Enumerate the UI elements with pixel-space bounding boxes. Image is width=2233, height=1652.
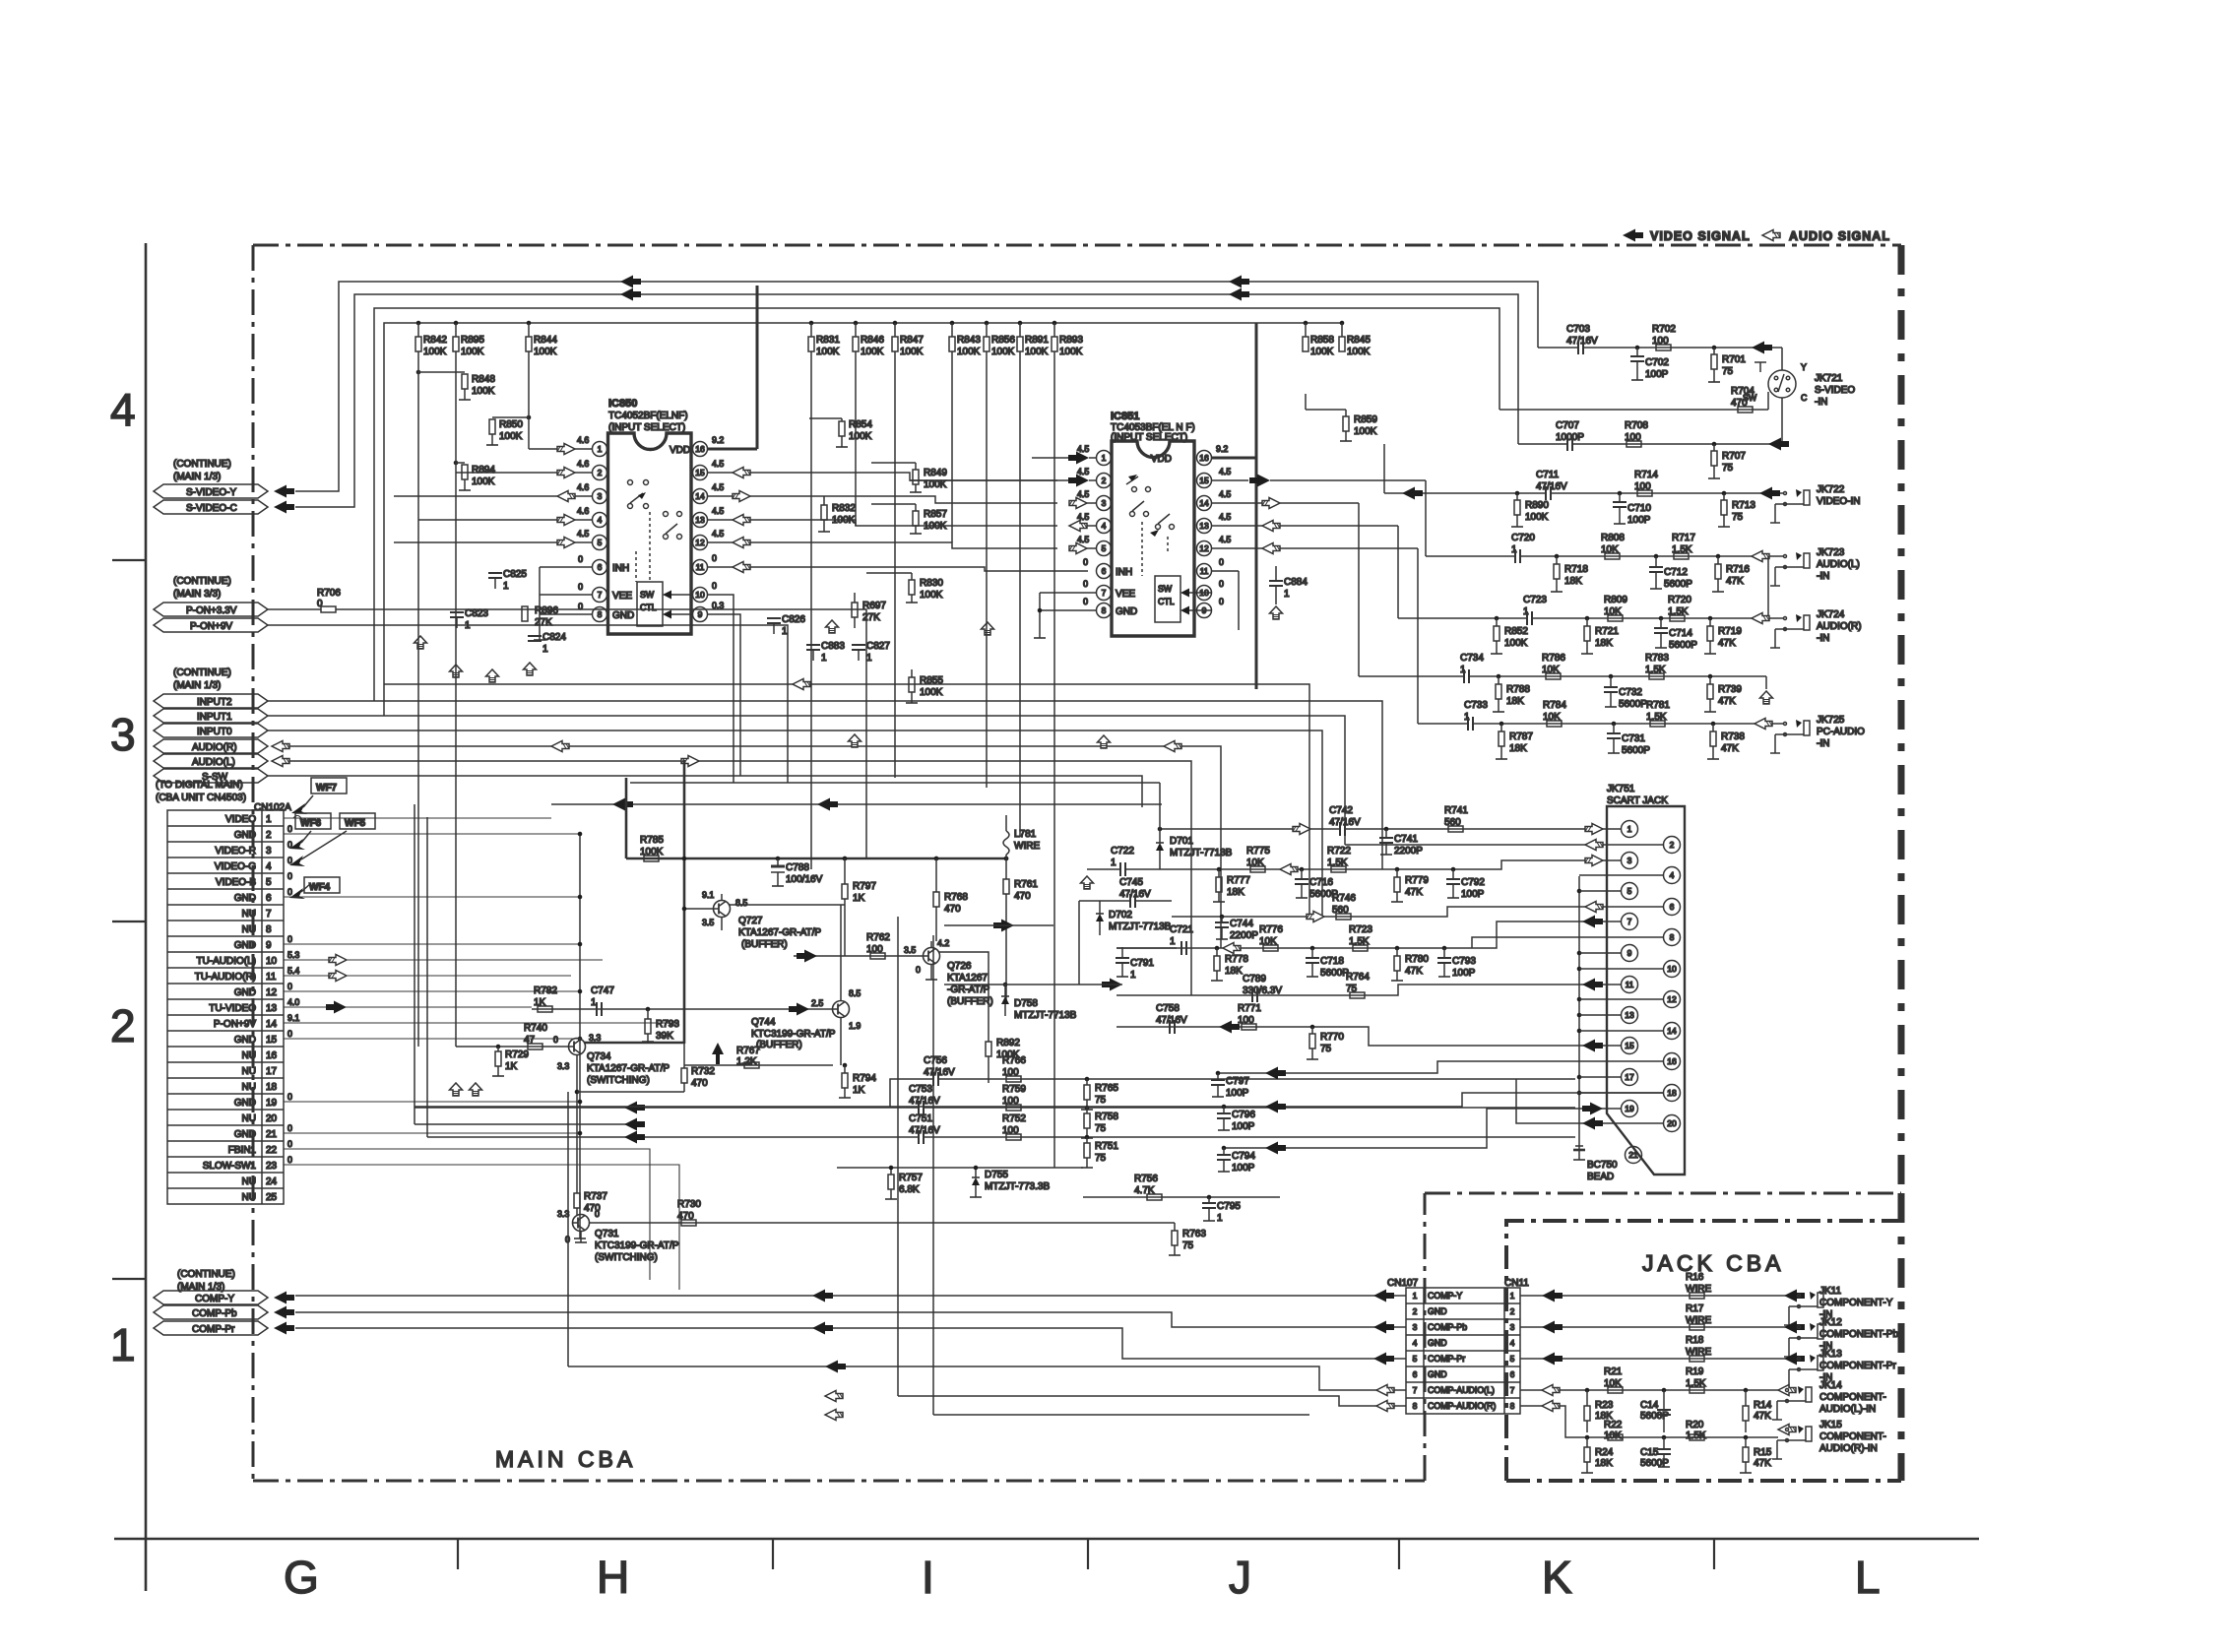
arrow JK12 — [1542, 1321, 1563, 1334]
IC851 pin 8 — [1097, 604, 1112, 618]
svg-text:CTL: CTL — [1158, 597, 1175, 606]
svg-text:COMPONENT-: COMPONENT- — [1819, 1392, 1886, 1403]
wire gnd bus to pin 13 — [1577, 1013, 1621, 1018]
svg-text:100/16V: 100/16V — [786, 874, 823, 885]
resistor R767 — [736, 1046, 760, 1068]
svg-text:560: 560 — [1444, 817, 1461, 828]
svg-text:47K: 47K — [1405, 887, 1423, 898]
capacitor C14 — [1640, 1388, 1671, 1432]
svg-text:7: 7 — [598, 590, 603, 600]
svg-text:47K: 47K — [1405, 966, 1423, 977]
svg-text:0: 0 — [578, 602, 583, 611]
svg-text:R759: R759 — [1002, 1084, 1026, 1095]
resistor R738 — [1707, 722, 1745, 759]
svg-text:5.4: 5.4 — [287, 966, 299, 976]
svg-text:13: 13 — [1199, 521, 1209, 531]
resistor R765 — [1081, 1077, 1118, 1110]
connector CN107/CN11 table — [1406, 1288, 1520, 1414]
svg-text:4.5: 4.5 — [1077, 467, 1089, 477]
resistor R14 — [1743, 1388, 1772, 1432]
svg-text:1.5K: 1.5K — [1686, 1378, 1706, 1389]
capacitor C797 — [1211, 1071, 1249, 1099]
svg-text:0: 0 — [578, 582, 583, 592]
gnd hatch near C883 — [826, 620, 839, 633]
main cba dash-dot top — [253, 244, 1901, 247]
IC851 pin 4 — [1097, 519, 1112, 534]
resistor R794 — [839, 1063, 876, 1098]
svg-text:2: 2 — [1413, 1306, 1418, 1316]
svg-text:MAIN CBA: MAIN CBA — [495, 1446, 636, 1472]
svg-text:7: 7 — [1627, 917, 1632, 926]
capacitor C884 — [1269, 566, 1308, 619]
resistor R775 — [1246, 846, 1270, 872]
svg-text:KTA1267-GR-AT/P: KTA1267-GR-AT/P — [587, 1063, 670, 1074]
capacitor C732 — [1604, 674, 1647, 710]
wire C745 riser — [1078, 901, 1080, 985]
resistor R716 — [1712, 554, 1750, 592]
IC851 gnd stub — [1034, 593, 1046, 638]
CN102A gnd bus — [579, 834, 581, 1239]
svg-text:9.1: 9.1 — [287, 1013, 299, 1023]
svg-text:Q726: Q726 — [947, 961, 972, 972]
svg-text:C794: C794 — [1232, 1151, 1255, 1162]
col tick J/K — [1398, 1539, 1400, 1569]
svg-text:16: 16 — [1667, 1056, 1677, 1066]
svg-text:2: 2 — [1102, 476, 1107, 485]
svg-text:0: 0 — [553, 1035, 558, 1045]
svg-text:21: 21 — [1628, 1150, 1638, 1160]
resistor R809 — [1604, 595, 1627, 621]
svg-text:R707: R707 — [1722, 451, 1746, 462]
svg-text:5: 5 — [598, 538, 603, 547]
flag COMP-Y — [154, 1291, 268, 1304]
svg-text:5: 5 — [266, 877, 272, 888]
svg-text:R845: R845 — [1347, 335, 1371, 346]
gnd hatch pc branch — [1760, 691, 1773, 704]
IC851 pin15 wire 4.5 — [1212, 467, 1426, 487]
resistor R776 — [1259, 924, 1283, 951]
svg-text:COMP-Y: COMP-Y — [195, 1294, 234, 1304]
svg-text:100K: 100K — [957, 347, 981, 357]
svg-text:27K: 27K — [862, 612, 880, 623]
wire C796 row — [415, 1106, 1224, 1108]
svg-text:WIRE: WIRE — [1014, 841, 1040, 852]
resistor R720 — [1668, 595, 1691, 621]
main cba dash-dot left — [252, 245, 255, 1481]
row tick 4/3 — [112, 559, 146, 561]
arrow row 695 — [793, 679, 810, 690]
svg-text:INH: INH — [1116, 567, 1132, 578]
IC851 pin16 wire 9.2 — [1212, 323, 1256, 689]
svg-text:15: 15 — [266, 1035, 278, 1046]
resistor R777 — [1213, 867, 1250, 902]
svg-text:R771: R771 — [1238, 1003, 1261, 1014]
capacitor C827 — [852, 641, 890, 664]
arrow JK13 — [1542, 1353, 1563, 1366]
IC851 pin 3 — [1097, 496, 1112, 511]
wire s-video-y row — [1538, 347, 1578, 349]
resistor R757 — [885, 1168, 923, 1199]
svg-text:H: H — [597, 1552, 629, 1603]
resistor R702 — [1652, 324, 1676, 350]
svg-text:560: 560 — [1332, 905, 1349, 916]
svg-text:NU: NU — [242, 924, 256, 935]
IC851 pin8 wire 0 — [1040, 597, 1096, 610]
svg-text:75: 75 — [1320, 1044, 1332, 1054]
svg-text:R702: R702 — [1652, 324, 1676, 335]
resistor R704 — [1499, 386, 1768, 413]
svg-text:13: 13 — [695, 515, 705, 525]
legend video arrow — [1623, 229, 1643, 242]
wire vertical x967 — [951, 351, 953, 542]
svg-text:GND: GND — [234, 940, 256, 951]
IC850 pin 7 — [593, 588, 607, 603]
svg-text:100K: 100K — [1504, 638, 1528, 649]
resistor R831 — [808, 321, 840, 357]
jack cba dash-dot box — [1506, 1221, 1898, 1481]
svg-text:1: 1 — [1111, 858, 1116, 868]
svg-text:9: 9 — [266, 940, 272, 951]
svg-text:100K: 100K — [472, 386, 495, 397]
IC851 SW CTL box — [1155, 576, 1180, 622]
svg-text:100: 100 — [1634, 481, 1651, 492]
capacitor C710 — [1613, 491, 1651, 526]
svg-text:17: 17 — [1625, 1072, 1634, 1082]
capacitor C826 — [767, 614, 805, 637]
arrow row C751 — [624, 1131, 645, 1144]
wire Q727 collector — [730, 904, 845, 906]
svg-text:0: 0 — [1083, 579, 1088, 589]
svg-text:(CONTINUE): (CONTINUE) — [177, 1269, 235, 1280]
capacitor C747 — [591, 985, 614, 1016]
svg-text:(CONTINUE): (CONTINUE) — [173, 667, 231, 678]
svg-text:5.3: 5.3 — [287, 950, 299, 960]
connector JK11 — [1784, 1286, 1893, 1325]
svg-text:R850: R850 — [499, 419, 523, 430]
svg-text:R714: R714 — [1634, 470, 1658, 480]
arrow pin7 — [1582, 916, 1603, 928]
IC851 pin 6 — [1097, 564, 1112, 579]
svg-text:1.2K: 1.2K — [736, 1056, 757, 1067]
capacitor C703 — [1566, 324, 1598, 354]
svg-text:7: 7 — [1102, 588, 1107, 598]
arrow C794 row — [1265, 1142, 1286, 1155]
svg-text:0.3: 0.3 — [712, 601, 724, 610]
JK751 pin 19 — [1622, 1101, 1638, 1117]
svg-text:18K: 18K — [1225, 966, 1243, 977]
svg-text:47K: 47K — [1754, 1411, 1771, 1422]
svg-text:R785: R785 — [640, 835, 664, 846]
svg-text:C884: C884 — [1284, 577, 1308, 588]
arrow pin15 — [1582, 1040, 1603, 1052]
capacitor C792 — [1446, 867, 1485, 900]
gnd hatch c — [486, 669, 499, 682]
svg-text:1: 1 — [503, 581, 509, 592]
row tick 2/1 — [112, 1278, 146, 1280]
wire vertical x869 — [855, 351, 857, 526]
svg-text:INPUT0: INPUT0 — [197, 727, 232, 737]
svg-text:WF7: WF7 — [316, 783, 338, 794]
svg-text:R708: R708 — [1625, 420, 1648, 431]
svg-text:100: 100 — [866, 944, 883, 955]
resistor R893 — [1052, 321, 1083, 357]
IC851 pin1 wire 4.5 — [1032, 444, 1096, 465]
svg-text:I: I — [922, 1552, 934, 1603]
svg-text:R776: R776 — [1259, 924, 1283, 935]
svg-text:8.5: 8.5 — [849, 988, 861, 998]
IC850 pin 11 — [693, 560, 708, 575]
capacitor C756 — [924, 1055, 955, 1086]
svg-text:0: 0 — [287, 824, 292, 834]
svg-text:R794: R794 — [853, 1073, 876, 1084]
svg-text:0: 0 — [287, 982, 292, 991]
wire s-video-c row — [1518, 443, 1567, 445]
svg-text:C742: C742 — [1329, 805, 1353, 816]
svg-text:-IN: -IN — [1817, 633, 1829, 644]
svg-text:WF4: WF4 — [309, 882, 331, 893]
resistor R762 — [866, 932, 890, 959]
col tick K/L — [1713, 1539, 1715, 1569]
flag INPUT2 — [154, 694, 268, 708]
svg-text:0: 0 — [1219, 557, 1224, 567]
col tick I/J — [1087, 1539, 1089, 1569]
svg-text:10: 10 — [266, 956, 278, 967]
svg-text:47/16V: 47/16V — [1536, 481, 1567, 492]
arrow COMP-Pr mid — [812, 1322, 833, 1335]
wire P-ON+9V — [268, 625, 788, 783]
svg-text:R858: R858 — [1310, 335, 1334, 346]
svg-text:C718: C718 — [1320, 956, 1344, 967]
IC850 pin 13 — [693, 513, 708, 528]
svg-text:C758: C758 — [1156, 1003, 1180, 1014]
resistor R847 — [892, 321, 924, 357]
svg-text:1: 1 — [782, 626, 788, 637]
svg-text:3: 3 — [1413, 1322, 1418, 1332]
svg-text:R716: R716 — [1726, 564, 1750, 575]
svg-text:C733: C733 — [1464, 700, 1488, 711]
IC850 pin 5 — [593, 536, 607, 550]
wire P-ON+3.3V — [268, 608, 321, 610]
svg-text:R797: R797 — [853, 881, 876, 892]
svg-text:12: 12 — [266, 987, 278, 998]
svg-text:3: 3 — [110, 709, 136, 760]
svg-text:10K: 10K — [1604, 1378, 1622, 1389]
wire AUDIO(R) — [289, 746, 1221, 948]
svg-text:16: 16 — [1199, 453, 1209, 463]
svg-text:4.5: 4.5 — [1077, 444, 1089, 454]
svg-text:INPUT2: INPUT2 — [197, 697, 232, 708]
svg-text:JK725: JK725 — [1817, 715, 1845, 726]
arrow W2 b — [1229, 288, 1249, 301]
svg-text:1: 1 — [1217, 1213, 1223, 1224]
wire scart pin15 row — [1116, 1027, 1621, 1046]
WF6 boxed label — [295, 813, 331, 829]
svg-text:-IN: -IN — [1815, 397, 1827, 408]
svg-text:2: 2 — [1510, 1306, 1515, 1316]
svg-text:C744: C744 — [1230, 919, 1253, 929]
svg-text:47K: 47K — [1718, 696, 1736, 707]
svg-text:R787: R787 — [1509, 731, 1533, 742]
svg-text:5: 5 — [1510, 1354, 1515, 1364]
svg-text:5600P: 5600P — [1619, 699, 1647, 710]
IC851 pin 7 — [1097, 586, 1112, 601]
svg-text:8: 8 — [266, 924, 272, 935]
svg-text:2: 2 — [110, 1000, 136, 1051]
arrow Q744 base — [789, 1003, 809, 1016]
arrow JK12 in — [1784, 1321, 1805, 1334]
capacitor C823 — [450, 608, 488, 631]
arrow pin3 — [1585, 856, 1603, 866]
svg-text:R17: R17 — [1686, 1303, 1704, 1314]
op-amp IC851 body — [1112, 441, 1194, 636]
arrow COMP-Y — [274, 1292, 294, 1304]
CN102A pin11 wire — [284, 975, 571, 977]
svg-text:R766: R766 — [1002, 1055, 1026, 1066]
wire scart pin1 row — [1162, 828, 1340, 830]
svg-text:100P: 100P — [1645, 369, 1669, 380]
JK751 pin 20 — [1664, 1115, 1681, 1132]
svg-text:4.5: 4.5 — [1219, 535, 1231, 544]
svg-text:R894: R894 — [472, 465, 495, 476]
wire scart pin2 — [1345, 844, 1663, 846]
resistor R891 — [1017, 321, 1049, 357]
arrow D758 row — [1102, 979, 1122, 991]
svg-text:2.5: 2.5 — [811, 998, 823, 1008]
IC851 pin4 wire 4.5 — [1069, 512, 1096, 532]
svg-text:1K: 1K — [534, 997, 546, 1008]
border left vertical — [145, 243, 148, 1591]
arrow audio-l table — [1376, 1385, 1394, 1396]
svg-text:16: 16 — [266, 1050, 278, 1061]
svg-text:MTZJT-7713B: MTZJT-7713B — [1109, 921, 1172, 932]
resistor R19 — [1686, 1366, 1706, 1393]
gnd hatch a — [415, 636, 427, 649]
svg-text:0: 0 — [287, 1092, 292, 1102]
svg-text:(SWITCHING): (SWITCHING) — [595, 1252, 658, 1263]
svg-text:WIRE: WIRE — [1686, 1315, 1711, 1326]
resistor R18 WIRE — [1686, 1335, 1711, 1362]
svg-text:P-ON+9V: P-ON+9V — [190, 621, 232, 632]
resistor R770 — [1307, 1025, 1344, 1059]
svg-text:C720: C720 — [1511, 533, 1535, 543]
svg-text:C823: C823 — [465, 608, 488, 619]
diode D702 — [1096, 901, 1172, 935]
IC850 pin12 wire 4.5 — [708, 529, 1057, 548]
wire INPUT1 — [268, 716, 1345, 829]
IC850 pin 16 — [693, 442, 708, 457]
svg-text:R781: R781 — [1646, 700, 1670, 711]
resistor R737 — [574, 1191, 607, 1215]
svg-text:NU: NU — [242, 1176, 256, 1187]
svg-text:C747: C747 — [591, 985, 614, 996]
svg-text:C707: C707 — [1556, 420, 1579, 431]
svg-text:R891: R891 — [1025, 335, 1049, 346]
gnd hatch e — [849, 734, 861, 747]
resistor R766 — [1002, 1055, 1026, 1082]
svg-text:10K: 10K — [1246, 858, 1264, 868]
arrow COMP-Pb table — [1373, 1321, 1394, 1334]
svg-text:R737: R737 — [584, 1191, 607, 1202]
capacitor C745 — [1079, 877, 1172, 908]
svg-text:GND: GND — [234, 1129, 256, 1140]
connector JK722 VIDEO-IN — [1770, 484, 1860, 523]
diode D701 — [1156, 827, 1233, 869]
wire COMP-Pb row — [295, 1312, 1406, 1327]
svg-text:D702: D702 — [1109, 910, 1132, 921]
svg-text:R786: R786 — [1542, 653, 1565, 664]
svg-text:2200P: 2200P — [1230, 930, 1258, 941]
flag INPUT0 — [154, 724, 268, 737]
wire C721 stub — [1116, 947, 1177, 949]
resistor R808 — [1601, 533, 1625, 559]
svg-text:18K: 18K — [1564, 576, 1582, 587]
WF7 arrow — [291, 803, 307, 814]
svg-text:AUDIO(L): AUDIO(L) — [1817, 559, 1860, 570]
wire JK13 row — [1520, 1358, 1798, 1360]
JK751 pin 11 — [1622, 977, 1638, 993]
svg-text:R843: R843 — [957, 335, 981, 346]
IC851 pin 16 — [1197, 451, 1212, 466]
svg-text:75: 75 — [1095, 1123, 1107, 1134]
svg-text:R763: R763 — [1182, 1229, 1206, 1239]
svg-text:D701: D701 — [1170, 836, 1193, 847]
gnd hatch pair a — [450, 1083, 463, 1096]
svg-text:100: 100 — [1002, 1067, 1019, 1078]
svg-text:R739: R739 — [1718, 684, 1742, 695]
svg-text:0: 0 — [916, 965, 921, 975]
wire COMP-AUDIO-L row — [568, 1366, 1406, 1390]
svg-text:C756: C756 — [924, 1055, 947, 1066]
transistor Q726 — [904, 938, 993, 1007]
IC850 SW CTL box — [637, 582, 663, 626]
svg-text:NU: NU — [242, 1192, 256, 1203]
svg-text:GND: GND — [1428, 1338, 1447, 1348]
IC850 pin7 wire — [540, 582, 592, 595]
svg-text:12: 12 — [695, 538, 705, 547]
resistor R22 — [1604, 1420, 1623, 1441]
resistor R722 — [1327, 846, 1351, 872]
flag S-SW — [154, 769, 268, 783]
transistor Q744 — [751, 988, 861, 1065]
wire scart pin11 row — [1116, 985, 1621, 995]
WF5 arrow — [289, 856, 305, 866]
svg-text:47K: 47K — [1718, 638, 1736, 649]
svg-text:JK722: JK722 — [1817, 484, 1845, 495]
svg-text:R846: R846 — [861, 335, 884, 346]
CN102A pin14 wire — [284, 1022, 679, 1024]
IC850 pin9 wire 0.3 — [663, 595, 740, 783]
CN102A pin column divider — [261, 810, 263, 1204]
svg-text:4.5: 4.5 — [1219, 489, 1231, 499]
wire TU-VIDEO row — [532, 1008, 833, 1010]
svg-text:100K: 100K — [534, 347, 557, 357]
resistor R763 — [1169, 1223, 1206, 1255]
svg-text:JACK CBA: JACK CBA — [1642, 1250, 1784, 1276]
svg-text:C721: C721 — [1170, 924, 1193, 935]
svg-text:AUDIO SIGNAL: AUDIO SIGNAL — [1789, 229, 1890, 243]
CN102A pin10 wire — [284, 959, 603, 961]
svg-text:VIDEO: VIDEO — [225, 814, 256, 825]
gnd hatch f — [982, 622, 994, 635]
flag AUDIO(L) — [154, 754, 268, 768]
resistor R784 — [1543, 700, 1566, 727]
wire Q726 base row — [794, 955, 924, 957]
svg-text:R757: R757 — [899, 1173, 923, 1183]
svg-text:100P: 100P — [1226, 1088, 1249, 1099]
svg-text:AUDIO(R): AUDIO(R) — [192, 742, 237, 753]
svg-text:BC750: BC750 — [1587, 1160, 1618, 1171]
IC851 pin 9 — [1197, 604, 1212, 618]
